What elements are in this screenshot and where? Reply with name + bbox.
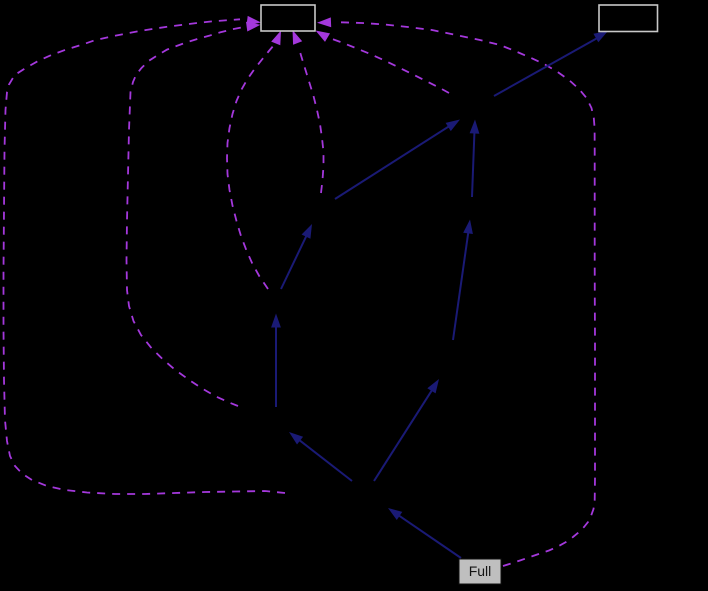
edge G->A (dashed, far-left loop) <box>4 16 286 494</box>
edge C->B (solid) <box>494 31 608 96</box>
svg-text:Full: Full <box>469 563 492 579</box>
edge Full->A (dashed, right loop) <box>317 17 595 566</box>
edge Full->G (solid) <box>388 508 461 558</box>
edge F->A (dashed, inner-left loop) <box>127 22 261 406</box>
edge F->E (solid) <box>271 314 281 408</box>
node B (empty box, top right) <box>599 5 658 32</box>
edge E->A (dashed) <box>227 31 281 290</box>
edge D->A (dashed) <box>293 30 324 193</box>
edge C->A (dashed) <box>316 31 450 94</box>
edge G->H (solid) <box>374 379 439 481</box>
edge H->C2 (solid) <box>453 220 473 341</box>
edge E->D (solid) <box>281 224 312 289</box>
node Full (grey box, bottom) <box>459 559 501 584</box>
edge G->F (solid) <box>289 432 352 481</box>
edge D->C (solid) <box>335 120 460 200</box>
edge C2->C (solid) <box>470 120 480 198</box>
node A (empty box, top center) <box>261 5 315 31</box>
